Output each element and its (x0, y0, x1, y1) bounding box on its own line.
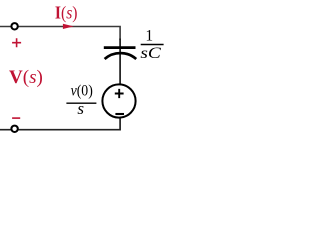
current arrow (63, 24, 74, 29)
capacitor C curved plate (105, 53, 137, 59)
svg-text:I(s): I(s) (55, 3, 78, 24)
wire: top lead from left edge to top-right corner (0, 27, 120, 41)
plus inside source (115, 89, 124, 98)
fraction bar of 1/sC (141, 44, 164, 46)
terminal: top open circle (11, 23, 17, 29)
svg-text:v(0): v(0) (71, 82, 93, 99)
wire: bottom lead from left edge to under the source (0, 118, 120, 129)
minus inside source (115, 113, 124, 115)
polarity minus (red) (12, 117, 20, 119)
polarity plus (red) (12, 38, 21, 47)
wire: vertical lead through capacitor to source top (119, 39, 121, 84)
voltage source U1 circle (102, 84, 135, 117)
capacitor C straight plate (104, 46, 136, 49)
svg-text:s: s (77, 99, 84, 118)
terminal: bottom open circle (11, 126, 17, 132)
svg-text:sC: sC (140, 45, 161, 62)
svg-text:1: 1 (145, 28, 153, 45)
fraction bar of v(0)/s (66, 102, 96, 104)
svg-text:V(s): V(s) (9, 67, 43, 88)
